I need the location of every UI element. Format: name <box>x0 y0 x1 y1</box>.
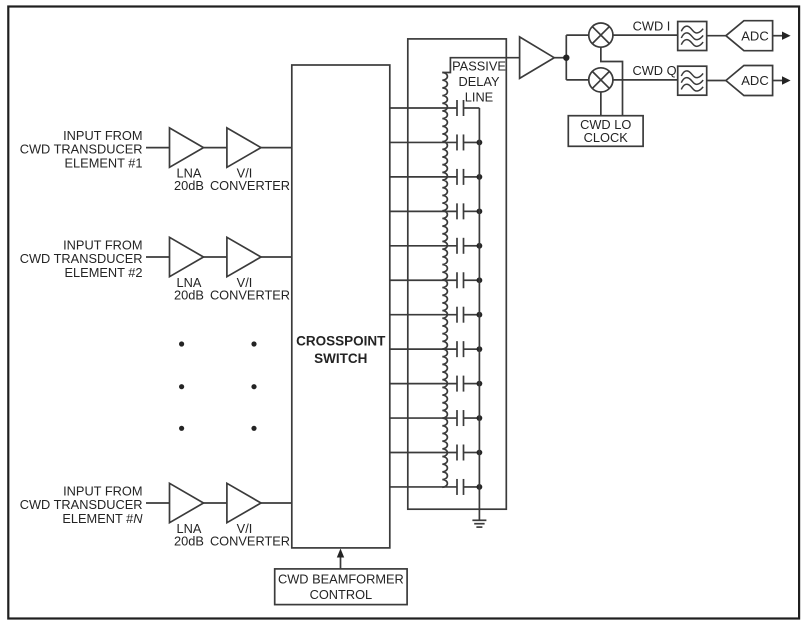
crosspoint switch block <box>292 65 390 548</box>
svg-text:CWD I: CWD I <box>633 18 671 33</box>
junction dot tap 4 <box>477 208 483 214</box>
wire: mixer I to LO clock <box>601 47 623 116</box>
svg-text:SWITCH: SWITCH <box>314 351 367 366</box>
wire: input to LNA row 2 <box>146 256 170 258</box>
wire: crosspoint tap 4 <box>390 210 457 212</box>
op-amp LNA row 1 <box>170 128 204 167</box>
label: LNA 20dB row 2 <box>174 275 204 303</box>
junction dot at amplifier output <box>563 55 569 61</box>
wire: capacitor C5 to bus <box>464 245 480 247</box>
capacitor C7 <box>457 307 464 323</box>
op-amp LNA row 3 <box>170 483 204 522</box>
passive delay line box <box>408 39 507 509</box>
ellipsis dot right column 2 <box>251 384 256 389</box>
low-pass filter CWD Q <box>678 66 707 95</box>
op-amp summing amplifier <box>520 37 555 79</box>
capacitor C8 <box>457 341 464 357</box>
svg-text:CONVERTER: CONVERTER <box>210 288 290 303</box>
svg-text:CWD TRANSDUCER: CWD TRANSDUCER <box>20 497 143 512</box>
label: input from CWD transducer element #2 <box>20 237 143 279</box>
wire: filter to ADC CWD Q <box>707 80 726 82</box>
low-pass filter CWD I <box>678 22 707 51</box>
svg-text:CWD TRANSDUCER: CWD TRANSDUCER <box>20 251 143 266</box>
capacitor C1 <box>457 100 464 116</box>
ellipsis dot left column 2 <box>179 384 184 389</box>
label: input from CWD transducer element #1 <box>20 128 143 170</box>
label: LNA 20dB row 1 <box>174 165 204 193</box>
junction dot tap 9 <box>477 381 483 387</box>
label: CWD LO CLOCK <box>580 117 631 145</box>
wire: capacitor C10 to bus <box>464 417 480 419</box>
wire: V/I to crosspoint switch row 1 <box>261 147 292 149</box>
svg-text:20dB: 20dB <box>174 534 204 549</box>
ellipsis dot right column 3 <box>251 426 256 431</box>
junction dot tap 5 <box>477 243 483 249</box>
wire: input to LNA row 1 <box>146 147 170 149</box>
wire: LNA to V/I row 1 <box>204 147 227 149</box>
wire: capacitor C6 to bus <box>464 279 480 281</box>
svg-text:CROSSPOINT: CROSSPOINT <box>296 334 386 349</box>
junction dot tap 12 <box>477 484 483 490</box>
capacitor C11 <box>457 445 464 461</box>
svg-text:CWD TRANSDUCER: CWD TRANSDUCER <box>20 142 143 157</box>
junction dot tap 7 <box>477 312 483 318</box>
ellipsis dot left column 1 <box>179 341 184 346</box>
wire: filter to ADC CWD I <box>707 35 726 37</box>
wire: capacitor C4 to bus <box>464 210 480 212</box>
junction dot tap 6 <box>477 277 483 283</box>
wire: LNA to V/I row 3 <box>204 502 227 504</box>
junction dot tap 2 <box>477 140 483 146</box>
ground <box>472 520 486 527</box>
wire: V/I to crosspoint switch row 3 <box>261 502 292 504</box>
svg-text:CWD Q: CWD Q <box>632 63 676 78</box>
wire: crosspoint tap 9 <box>390 383 457 385</box>
ADC CWD I <box>726 21 773 51</box>
wire: capacitor C9 to bus <box>464 383 480 385</box>
label: V/I CONVERTER row 1 <box>210 165 290 193</box>
wire: crosspoint tap 11 <box>390 452 457 454</box>
svg-text:CONVERTER: CONVERTER <box>210 178 290 193</box>
op-amp V/I converter row 3 <box>227 483 261 522</box>
wire: coil top to summing amplifier <box>442 58 519 73</box>
junction dot tap 3 <box>477 174 483 180</box>
mixer I (CWD I) <box>589 23 613 47</box>
wire: crosspoint tap 2 <box>390 141 457 143</box>
wire: capacitor C11 to bus <box>464 452 480 454</box>
label: CWD BEAMFORMER CONTROL <box>278 571 404 602</box>
capacitor C12 <box>457 479 464 495</box>
label: LNA 20dB row 3 <box>174 521 204 549</box>
wire: crosspoint tap 12 <box>390 486 457 488</box>
wire: ground bus <box>478 108 480 520</box>
wire: crosspoint tap 3 <box>390 176 457 178</box>
wire: LNA to V/I row 2 <box>204 256 227 258</box>
svg-text:ELEMENT #1: ELEMENT #1 <box>65 155 143 170</box>
ADC CWD Q <box>726 66 773 96</box>
op-amp V/I converter row 2 <box>227 237 261 276</box>
svg-text:20dB: 20dB <box>174 288 204 303</box>
wire: crosspoint tap 6 <box>390 279 457 281</box>
ellipsis dot left column 3 <box>179 426 184 431</box>
label: PASSIVE DELAY LINE <box>452 59 506 105</box>
svg-text:20dB: 20dB <box>174 178 204 193</box>
label: input from CWD transducer element #N <box>20 483 144 525</box>
capacitor C5 <box>457 238 464 254</box>
capacitor C4 <box>457 203 464 219</box>
svg-text:PASSIVE: PASSIVE <box>452 59 506 74</box>
capacitor C10 <box>457 410 464 426</box>
label: V/I CONVERTER row 2 <box>210 275 290 303</box>
capacitor C9 <box>457 376 464 392</box>
svg-text:LINE: LINE <box>465 90 493 105</box>
wire: mixer I to filter <box>613 34 678 36</box>
svg-text:CONTROL: CONTROL <box>310 587 373 602</box>
wire: crosspoint tap 10 <box>390 417 457 419</box>
output arrow CWD Q <box>773 76 791 84</box>
inductor delay-line coil <box>442 73 447 488</box>
mixer Q (CWD Q) <box>589 68 613 92</box>
CWD LO clock block <box>568 116 643 147</box>
svg-text:ELEMENT #2: ELEMENT #2 <box>65 265 143 280</box>
svg-text:DELAY: DELAY <box>458 74 499 89</box>
junction dot tap 8 <box>477 346 483 352</box>
op-amp V/I converter row 1 <box>227 128 261 167</box>
svg-text:ADC: ADC <box>741 73 768 88</box>
label: CROSSPOINT SWITCH <box>296 334 386 367</box>
wire: capacitor C8 to bus <box>464 348 480 350</box>
wire: amplifier to I/Q split <box>554 35 589 80</box>
capacitor C6 <box>457 272 464 288</box>
arrow: control to crosspoint switch <box>337 549 344 569</box>
wire: crosspoint tap 1 <box>390 107 457 109</box>
svg-text:ADC: ADC <box>741 28 768 43</box>
wire: capacitor C12 to bus <box>464 486 480 488</box>
junction dot tap 10 <box>477 415 483 421</box>
wire: crosspoint tap 5 <box>390 245 457 247</box>
wire: mixer Q to filter <box>613 79 678 81</box>
label: V/I CONVERTER row 3 <box>210 521 290 549</box>
svg-text:CONVERTER: CONVERTER <box>210 534 290 549</box>
svg-text:CLOCK: CLOCK <box>584 130 629 145</box>
wire: capacitor C3 to bus <box>464 176 480 178</box>
wire: capacitor C2 to bus <box>464 141 480 143</box>
capacitor C3 <box>457 169 464 185</box>
svg-text:ELEMENT #N: ELEMENT #N <box>62 511 143 526</box>
wire: V/I to crosspoint switch row 2 <box>261 256 292 258</box>
svg-text:CWD BEAMFORMER: CWD BEAMFORMER <box>278 571 404 586</box>
wire: crosspoint tap 7 <box>390 314 457 316</box>
CWD beamformer control block <box>275 569 407 605</box>
wire: capacitor C7 to bus <box>464 314 480 316</box>
ellipsis dot right column 1 <box>251 341 256 346</box>
op-amp LNA row 2 <box>170 237 204 276</box>
wire: input to LNA row 3 <box>146 502 170 504</box>
wire: crosspoint tap 8 <box>390 348 457 350</box>
junction dot tap 11 <box>477 450 483 456</box>
output arrow CWD I <box>773 32 791 40</box>
wire: capacitor C1 to bus <box>464 107 480 109</box>
capacitor C2 <box>457 134 464 150</box>
wire: mixer Q to LO clock <box>600 92 602 116</box>
